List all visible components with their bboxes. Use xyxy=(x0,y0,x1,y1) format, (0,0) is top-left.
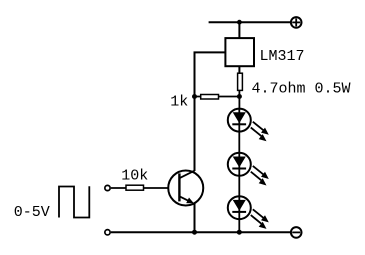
transistor Q1 xyxy=(168,171,203,206)
wire D3 to bottom rail xyxy=(238,219,240,232)
terminal input bottom xyxy=(105,230,110,235)
wire 1k node to collector xyxy=(194,97,196,172)
LED D2 xyxy=(228,153,269,186)
resistor R1 1k xyxy=(201,95,219,100)
wire D2 to D3 xyxy=(238,176,240,196)
resistor R3 10k xyxy=(126,185,144,190)
wire LM317 OUT to R2 xyxy=(238,66,240,74)
node LED chain junction xyxy=(237,230,242,235)
wire 1k leads xyxy=(195,96,240,98)
node emitter junction xyxy=(192,230,197,235)
LED D1 xyxy=(228,109,269,142)
node R2/LED junction xyxy=(237,94,242,99)
wire emitter to bottom rail xyxy=(194,204,196,233)
resistor R2 4.7ohm xyxy=(238,73,243,108)
wire LM317 ADJ to 1k node xyxy=(195,52,226,96)
LED D3 xyxy=(228,196,269,229)
node ADJ/1k junction xyxy=(192,94,197,99)
wire D1 to D2 xyxy=(238,132,240,153)
svg-text:10k: 10k xyxy=(121,167,148,184)
terminal positive xyxy=(291,17,302,28)
square wave symbol xyxy=(59,186,89,217)
regulator U1 LM317 xyxy=(225,38,254,66)
wire bottom rail xyxy=(111,231,291,233)
terminal negative xyxy=(291,227,302,238)
svg-text:1k: 1k xyxy=(170,93,188,110)
terminal input top xyxy=(105,185,110,190)
wire junction to LM317 IN xyxy=(238,22,240,38)
svg-text:4.7ohm 0.5W: 4.7ohm 0.5W xyxy=(252,81,351,98)
wire input to base xyxy=(111,187,168,189)
wire top positive rail xyxy=(209,21,291,23)
svg-text:0-5V: 0-5V xyxy=(14,204,50,221)
svg-text:LM317: LM317 xyxy=(260,48,305,65)
node top rail junction xyxy=(237,20,242,25)
